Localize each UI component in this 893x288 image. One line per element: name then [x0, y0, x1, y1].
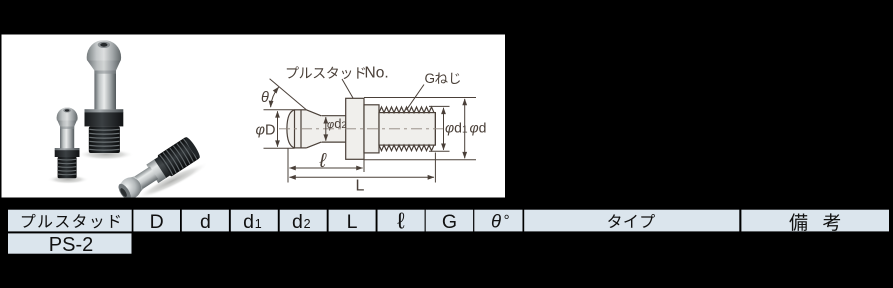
photo small pull stud: dome: [57, 107, 78, 128]
lying stud neck: [130, 166, 158, 192]
table header cell G: [426, 210, 473, 232]
phiD dimension line: [277, 111, 279, 147]
white content panel: [2, 35, 506, 198]
photo shadows: [78, 149, 134, 160]
photo small pull stud: shank occlusion: [60, 127, 74, 129]
pull stud No. leader line: [342, 79, 353, 98]
head cone faces: [306, 110, 321, 116]
table header cell d2: [280, 210, 327, 232]
photo small pull stud: head taper: [57, 120, 77, 126]
thread crest zigzag top: [379, 107, 434, 113]
table header cell d: [182, 210, 229, 232]
photo large pull stud: shank occlusion: [94, 71, 116, 74]
table header cell biko: [741, 210, 889, 232]
phid2 dimension line: [325, 117, 327, 141]
theta angle line: [270, 79, 307, 110]
table header cell L: [329, 210, 376, 232]
thread crest zigzag bottom: [379, 145, 434, 151]
svg-text:No.: No.: [365, 65, 389, 82]
header text プルスタッド: [22, 214, 120, 228]
stud head (ball end): [287, 110, 295, 148]
photo large pull stud: shank: [94, 67, 116, 109]
lying stud end face: [184, 136, 202, 160]
phid dimension line: [464, 99, 466, 158]
photo small pull stud: top hole: [63, 108, 71, 112]
photo small pull stud: thread: [58, 157, 77, 178]
G thread leader line: [407, 85, 425, 110]
lying stud flange: [146, 159, 166, 183]
svg-text:φD: φD: [256, 122, 276, 138]
header text 考: [823, 213, 840, 231]
thread end face: [434, 113, 436, 146]
table header cell type: [524, 210, 739, 232]
label プルスタッド (drawing): [287, 66, 365, 79]
svg-text:PS-2: PS-2: [49, 234, 93, 256]
photo lying pull stud: [114, 136, 202, 205]
L dimension line: [289, 176, 434, 178]
label ねじ: [435, 72, 460, 84]
threaded section body: [379, 113, 435, 146]
lying stud thread: [157, 137, 200, 177]
photo small pull stud: flange: [55, 148, 80, 151]
photo large pull stud: head taper: [87, 60, 121, 71]
centerline: [279, 128, 448, 130]
header text 備: [789, 213, 807, 230]
phiD extension lines: [264, 109, 295, 111]
svg-text:ℓ: ℓ: [397, 207, 405, 233]
table header cell c1: [8, 210, 132, 232]
table header cell D: [133, 210, 180, 232]
table header cell l: [378, 210, 425, 232]
table row PS-2 cell: [8, 233, 132, 253]
phid1 extension lines: [429, 105, 450, 107]
svg-text:D: D: [150, 211, 164, 233]
svg-text:G: G: [425, 71, 436, 86]
photo large pull stud: top hole: [98, 42, 110, 48]
photo large pull stud: thread: [89, 126, 120, 153]
L dimension extension line right: [434, 153, 436, 183]
neck: [321, 116, 346, 142]
table header cell th: [474, 210, 522, 232]
table header cell d1: [231, 210, 278, 232]
lying stud taper: [127, 174, 145, 195]
lying stud ball: [116, 173, 145, 202]
svg-text:θ: θ: [261, 90, 269, 106]
svg-text:θ°: θ°: [491, 210, 510, 231]
header text タイプ: [608, 214, 655, 228]
svg-text:φd: φd: [470, 120, 487, 136]
phid extension lines: [364, 97, 476, 99]
flange: [346, 98, 364, 159]
theta angle arc: [271, 87, 279, 107]
svg-text:G: G: [442, 211, 457, 233]
lying stud tip face: [116, 182, 133, 202]
svg-text:L: L: [347, 211, 358, 233]
thread relief cylinder: [364, 105, 379, 153]
photo small pull stud: shank: [60, 126, 74, 149]
phid1 dimension line: [443, 108, 445, 150]
svg-text:L: L: [356, 178, 365, 195]
l dimension extension lines: [287, 149, 289, 183]
photo large pull stud: dome: [87, 40, 121, 74]
svg-text:d: d: [200, 211, 211, 233]
l dimension line: [289, 167, 362, 169]
photo large pull stud: flange: [85, 109, 124, 113]
